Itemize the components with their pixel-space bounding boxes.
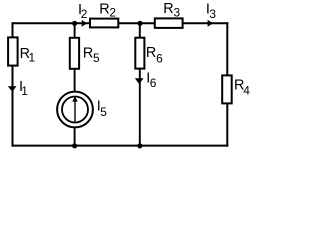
wire left [12, 22, 14, 146]
label I5 [97, 99, 108, 120]
current source I5 arrow [72, 96, 78, 122]
svg-text:1: 1 [29, 51, 36, 65]
node junction top R6 [137, 21, 142, 26]
wire R5/I5 branch [74, 23, 76, 145]
svg-text:R: R [99, 1, 109, 17]
wire right [226, 22, 228, 146]
svg-text:3: 3 [209, 7, 216, 21]
label R2 [99, 1, 116, 19]
svg-text:5: 5 [93, 51, 100, 65]
svg-text:2: 2 [109, 5, 116, 19]
svg-text:R: R [163, 1, 173, 17]
label R1 [20, 46, 36, 65]
resistor R6 [135, 38, 144, 69]
svg-text:1: 1 [21, 84, 28, 98]
label I3 [206, 2, 217, 21]
node junction top R5 [72, 21, 77, 26]
label R4 [234, 78, 250, 98]
label I2 [78, 2, 88, 21]
wire bottom [12, 145, 229, 147]
svg-text:2: 2 [81, 7, 88, 21]
svg-text:6: 6 [150, 76, 157, 90]
current arrow I6 [135, 78, 144, 84]
svg-text:4: 4 [243, 84, 250, 98]
resistor R5 [70, 38, 79, 69]
label R6 [146, 45, 163, 65]
current arrow I3 [208, 20, 213, 27]
current source I5 inner circle [62, 97, 88, 123]
wire top [12, 22, 229, 24]
resistor R4 [222, 75, 232, 103]
node junction bottom I6 [137, 143, 142, 148]
label I6 [146, 70, 157, 90]
svg-text:5: 5 [100, 105, 107, 119]
label R5 [83, 46, 100, 65]
current arrow I2 [82, 20, 87, 27]
resistor R3 [155, 18, 183, 28]
svg-text:6: 6 [156, 51, 163, 65]
svg-text:R: R [83, 46, 93, 62]
svg-text:R: R [146, 45, 156, 61]
current source I5 outer circle [57, 92, 93, 128]
svg-text:3: 3 [174, 6, 181, 20]
label R3 [163, 1, 180, 19]
current arrow I1 [8, 86, 17, 92]
resistor R1 [8, 37, 18, 65]
label I1 [19, 79, 28, 98]
wire R6/I6 branch [139, 23, 141, 145]
node junction bottom I5 [72, 143, 77, 148]
resistor R2 [90, 19, 118, 28]
